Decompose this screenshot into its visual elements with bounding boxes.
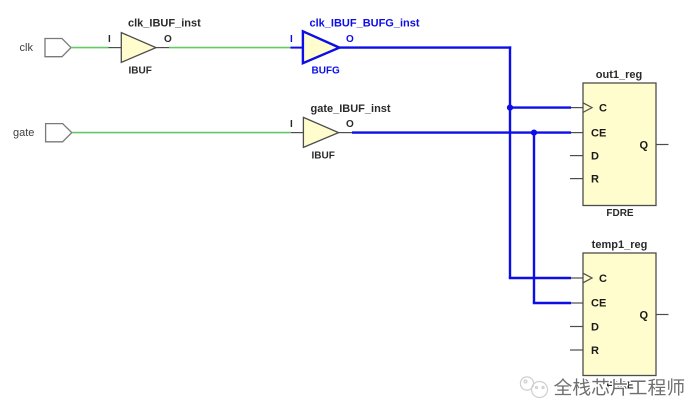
pin C of temp1_reg bbox=[571, 273, 607, 285]
svg-text:O: O bbox=[164, 34, 172, 45]
svg-text:temp1_reg: temp1_reg bbox=[592, 239, 648, 251]
svg-text:BUFG: BUFG bbox=[312, 66, 341, 77]
wire net clk_IBUF (IBUF O to BUFG I) bbox=[169, 47, 290, 49]
pin Q of out1_reg bbox=[639, 139, 668, 151]
pin stub I of BUFG bbox=[290, 34, 303, 48]
pin CE of out1_reg bbox=[571, 127, 606, 139]
wire net clk (port to IBUF input) bbox=[71, 47, 109, 49]
svg-text:Q: Q bbox=[639, 139, 648, 151]
svg-text:clk_IBUF_BUFG_inst: clk_IBUF_BUFG_inst bbox=[310, 18, 420, 30]
junction at clk trunk / out1 C branch bbox=[507, 105, 513, 111]
svg-text:CE: CE bbox=[591, 298, 606, 310]
svg-text:O: O bbox=[346, 119, 354, 130]
pin R of out1_reg bbox=[570, 174, 599, 186]
svg-text:IBUF: IBUF bbox=[312, 151, 335, 162]
svg-text:O: O bbox=[346, 34, 354, 45]
watermark text 全栈芯片工程师 bbox=[554, 378, 684, 396]
svg-text:CE: CE bbox=[591, 127, 606, 139]
svg-text:clk_IBUF_inst: clk_IBUF_inst bbox=[128, 18, 201, 30]
svg-text:D: D bbox=[591, 151, 599, 163]
pin D of temp1_reg bbox=[570, 321, 599, 333]
svg-text:IBUF: IBUF bbox=[129, 66, 152, 77]
pin Q of temp1_reg bbox=[639, 309, 668, 321]
svg-text:gate_IBUF_inst: gate_IBUF_inst bbox=[311, 103, 391, 115]
flip-flop out1_reg (FDRE) bbox=[583, 69, 656, 219]
pin stub I of gate IBUF bbox=[290, 119, 303, 133]
buffer U gate_IBUF_inst (IBUF) bbox=[303, 103, 391, 162]
wire net gate (port to IBUF input) bbox=[72, 132, 291, 134]
wire net gate_IBUF horizontal to out1 CE bbox=[352, 131, 571, 133]
svg-text:gate: gate bbox=[13, 127, 34, 139]
svg-text:R: R bbox=[591, 174, 599, 186]
flip-flop temp1_reg (FDRE) bbox=[583, 239, 656, 392]
pin stub O of gate IBUF bbox=[339, 119, 354, 133]
port clk bbox=[20, 39, 72, 57]
svg-text:R: R bbox=[591, 345, 599, 357]
port gate bbox=[13, 124, 72, 142]
svg-text:I: I bbox=[290, 34, 293, 45]
pin D of out1_reg bbox=[570, 151, 599, 163]
pin R of temp1_reg bbox=[570, 345, 599, 357]
junction at gate net / temp1 CE branch bbox=[531, 130, 537, 136]
pin CE of temp1_reg bbox=[571, 298, 606, 310]
svg-text:Q: Q bbox=[639, 309, 648, 321]
svg-text:C: C bbox=[599, 273, 607, 285]
buffer U clk_IBUF_inst (IBUF) bbox=[121, 18, 201, 77]
svg-text:C: C bbox=[599, 103, 607, 115]
svg-text:clk: clk bbox=[20, 42, 34, 54]
wire branch to out1_reg C bbox=[510, 106, 571, 108]
svg-text:I: I bbox=[108, 34, 111, 45]
pin stub O of clk IBUF bbox=[156, 34, 172, 48]
pin stub I of clk IBUF bbox=[108, 34, 121, 48]
wire gate net vertical drop bbox=[533, 133, 535, 303]
pin C of out1_reg: gray stub + clock marker + label bbox=[571, 103, 607, 115]
svg-text:I: I bbox=[290, 119, 293, 130]
wire branch to temp1_reg C bbox=[509, 277, 571, 279]
svg-text:FDRE: FDRE bbox=[606, 208, 634, 219]
buffer U clk_IBUF_BUFG_inst (BUFG) bbox=[303, 18, 420, 77]
watermark logo bbox=[520, 377, 547, 398]
wire net clk_IBUF_BUFG horizontal from BUFG bbox=[339, 46, 511, 48]
wire net clk_IBUF_BUFG vertical trunk bbox=[509, 46, 511, 278]
svg-text:D: D bbox=[591, 321, 599, 333]
svg-text:out1_reg: out1_reg bbox=[596, 69, 642, 81]
wire branch to temp1_reg CE bbox=[533, 302, 571, 304]
